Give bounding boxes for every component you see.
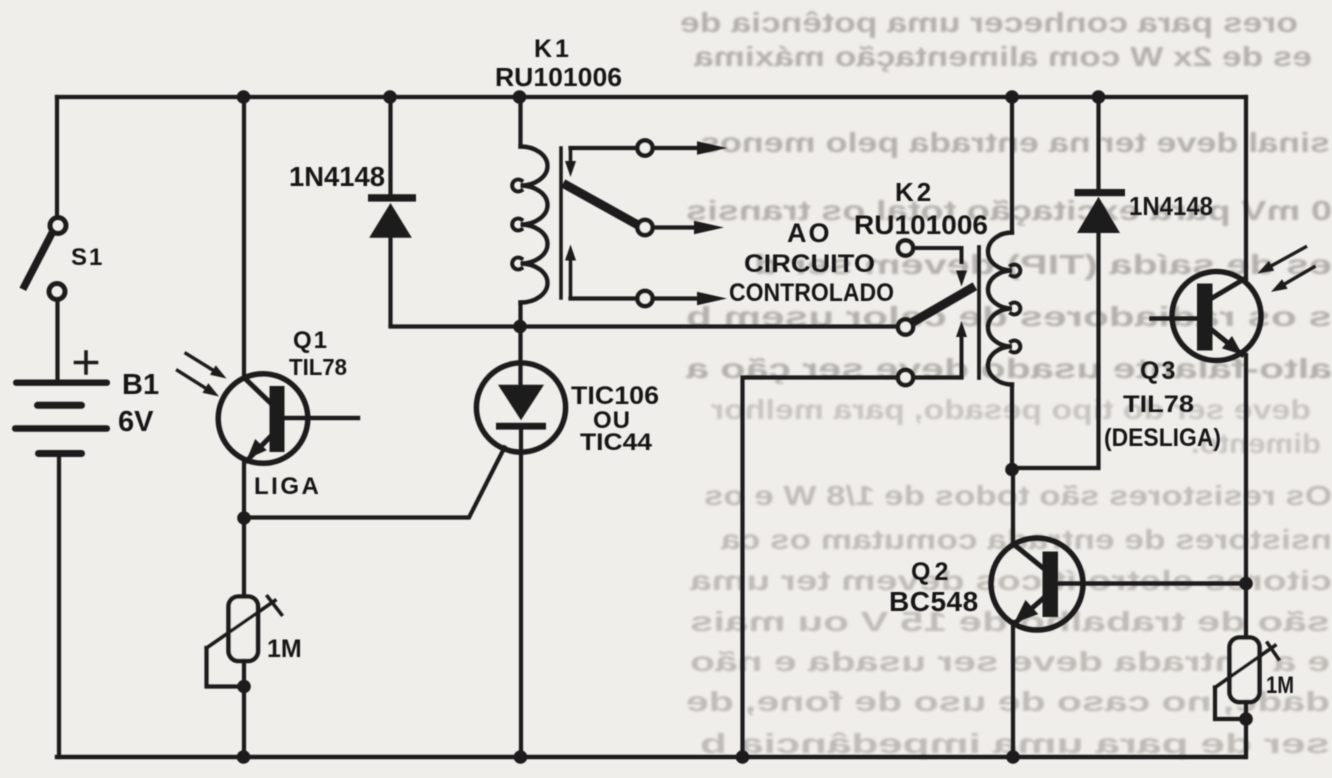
node: K2 coil / D2 return junction <box>1005 463 1019 477</box>
relay K1 coil <box>512 97 547 327</box>
svg-text:K2: K2 <box>895 177 934 207</box>
svg-text:BC548: BC548 <box>889 586 979 617</box>
wire: left rail upper (battery to top rail) <box>55 97 59 216</box>
node: top rail / K2 coil <box>1005 90 1019 104</box>
svg-text:sinal deve ter na entrada pelo: sinal deve ter na entrada pelo menos <box>700 127 1330 158</box>
wire: Q1 emitter down to pot <box>242 460 246 596</box>
wire: S1 to battery <box>55 300 59 380</box>
svg-text:1M: 1M <box>267 635 302 663</box>
svg-text:S1: S1 <box>71 244 104 271</box>
relay K1 core bar <box>559 148 563 298</box>
relay K2 coil <box>988 97 1020 470</box>
wire: K2 coil junction through Q2 <box>1011 470 1015 546</box>
wire: Q3 emitter down right rail <box>1244 355 1248 637</box>
node: top rail / Q1 branch <box>237 90 251 104</box>
potentiometer P2 1M <box>1215 638 1279 720</box>
svg-text:TIC106: TIC106 <box>571 382 659 410</box>
svg-text:K1: K1 <box>534 35 572 63</box>
node: Q1 emitter / gate wire junction <box>237 511 251 525</box>
svg-text:RU101006: RU101006 <box>495 62 622 92</box>
switch S1 <box>25 218 67 300</box>
svg-text:1N4148: 1N4148 <box>1129 191 1213 221</box>
node: bottom rail / K2 contact branch <box>736 750 750 764</box>
node: bottom rail / Q2 emitter <box>1006 750 1020 764</box>
node: top rail / D1 <box>383 90 397 104</box>
battery plus sign <box>76 352 97 373</box>
svg-text:Q2: Q2 <box>911 558 952 586</box>
svg-text:CONTROLADO: CONTROLADO <box>729 279 894 307</box>
relay K2 contacts <box>896 240 971 385</box>
phototransistor Q1 TIL78 <box>218 374 358 464</box>
transistor Q2 BC548 <box>991 538 1246 630</box>
node: wire A / SCR anode junction <box>513 320 527 334</box>
svg-text:Q3: Q3 <box>1140 357 1177 385</box>
svg-text:(DESLIGA): (DESLIGA) <box>1104 424 1221 452</box>
svg-text:RU101006: RU101006 <box>854 210 988 240</box>
diode D1 1N4148 <box>368 97 416 325</box>
diode D2 1N4148 <box>1013 97 1125 468</box>
wire: bottom rail <box>57 755 1245 759</box>
wire: pot to bottom rail <box>242 661 246 757</box>
light arrows into Q3 <box>1258 247 1315 292</box>
wire: right pot to bottom rail corner <box>1244 702 1248 757</box>
node: bottom rail / Q1 branch <box>237 750 251 764</box>
svg-text:Q1: Q1 <box>293 327 329 354</box>
battery B1 <box>12 380 110 458</box>
wire: right rail top (to Q3 collector) <box>1244 97 1248 279</box>
node: top rail / D2 <box>1092 90 1106 104</box>
relay K1 contacts <box>565 140 727 306</box>
node: pot wiper junction <box>237 680 251 694</box>
svg-text:6V: 6V <box>118 406 154 438</box>
svg-text:LIGA: LIGA <box>254 473 321 500</box>
node: bottom rail / SCR cathode <box>514 750 528 764</box>
svg-text:B1: B1 <box>122 369 159 401</box>
svg-text:TIC44: TIC44 <box>580 429 653 456</box>
wire: gate wire from Q1 junction to SCR gate <box>244 448 505 518</box>
node: right pot wiper junction <box>1239 712 1253 726</box>
wire: battery to bottom rail <box>57 457 61 757</box>
potentiometer P1 1M <box>207 597 282 687</box>
svg-text:es de 2x W com alimentação máx: es de 2x W com alimentação máxima <box>693 41 1312 72</box>
svg-text:AO: AO <box>787 218 832 248</box>
svg-text:CIRCUITO: CIRCUITO <box>744 250 875 278</box>
node: right rail / Q2 base <box>1239 577 1253 591</box>
wire: top rail <box>57 95 1246 99</box>
SCR TIC106 <box>476 327 565 758</box>
svg-text:TIL78: TIL78 <box>289 354 347 380</box>
svg-text:ores para conhecer uma potênci: ores para conhecer uma potência de <box>680 7 1298 38</box>
svg-text:0 mV para excitação total os t: 0 mV para excitação total os transis <box>686 195 1332 226</box>
node: top rail / K1 coil <box>513 90 527 104</box>
light arrows into Q1 <box>178 354 227 397</box>
svg-text:1N4148: 1N4148 <box>289 161 385 192</box>
wire: Q2 emitter to bottom rail <box>1011 622 1015 757</box>
ghost bleed-through text layer <box>680 7 1332 759</box>
svg-text:1M: 1M <box>1266 672 1294 699</box>
wire: top rail to Q1 collector <box>242 97 246 378</box>
wire: node A horizontal (D1 bottom to K2 common) <box>391 324 897 328</box>
wire: K2 bottom contact to bottom rail <box>743 378 899 758</box>
relay K2 core bar <box>977 247 981 378</box>
phototransistor Q3 TIL78 <box>1152 272 1262 361</box>
svg-text:Os resistores são todos de 1/8: Os resistores são todos de 1/8 W e os <box>704 480 1332 511</box>
svg-text:TIL78: TIL78 <box>1123 391 1194 418</box>
svg-text:citores eletrolíticos devem te: citores eletrolíticos devem ter uma <box>689 565 1332 596</box>
